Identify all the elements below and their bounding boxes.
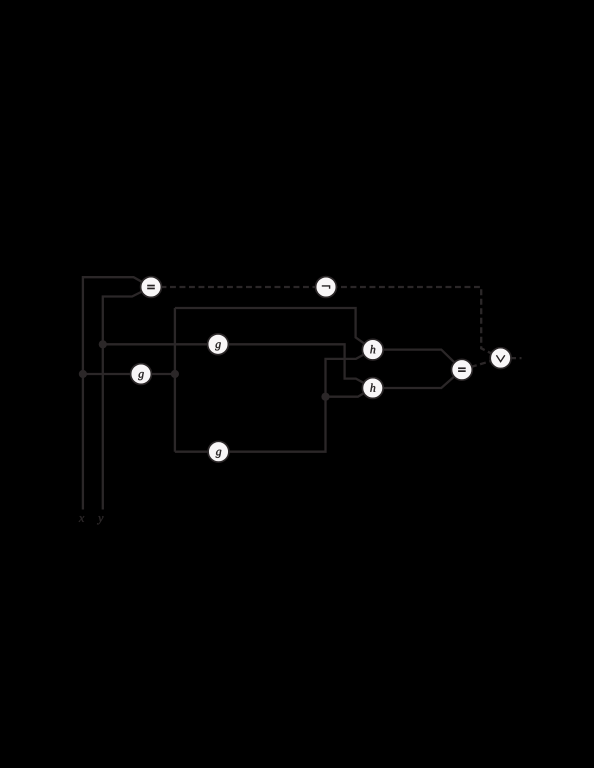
node D1 junction x/g2 <box>79 370 87 378</box>
label input y <box>97 516 103 524</box>
label input x <box>79 516 84 522</box>
wire g1 output to h2 upper input <box>218 344 373 388</box>
label = in EQ1 <box>147 285 155 290</box>
gate g2 circle <box>131 364 152 385</box>
gate EQ2 circle <box>452 359 473 380</box>
gate h1 circle <box>362 339 383 360</box>
wire dashed eq2 to or1 <box>462 358 501 370</box>
gate g2 letter <box>138 372 144 380</box>
wire top branch to h1 upper input <box>175 308 373 350</box>
gate g3 circle <box>208 441 229 462</box>
gate h2 letter <box>370 384 375 392</box>
gate NOT1 circle <box>316 277 337 298</box>
wire bottom branch through g3 to h1 lower input <box>175 350 373 452</box>
node A junction g2 output <box>171 370 179 378</box>
gate g3 letter <box>216 450 222 458</box>
node B junction g3 output <box>321 393 329 401</box>
wire node B branch to h2 lower input <box>326 388 373 397</box>
gate OR1 circle <box>490 348 511 369</box>
label or sign in OR1 <box>496 355 504 361</box>
wire y to gate g1 <box>103 343 218 345</box>
gate h1 letter <box>370 345 375 353</box>
gate EQ1 circle <box>141 277 162 298</box>
gate h2 circle <box>362 378 383 399</box>
wire input x vertical riser <box>83 277 151 509</box>
wire h2 output to eq2 <box>373 370 462 388</box>
node D2 junction y/g1 <box>99 340 107 348</box>
wire node A vertical bus <box>174 308 176 452</box>
wire dashed eq1 through not1 to or1 <box>151 287 501 358</box>
gate g1 circle <box>208 334 229 355</box>
wire input y vertical riser <box>103 287 151 510</box>
gate g1 letter <box>215 342 221 350</box>
wire dashed or1 output <box>501 357 522 359</box>
label input y <box>97 516 103 524</box>
label not sign in NOT1 <box>322 286 330 289</box>
wire g2 output to node A <box>141 373 175 375</box>
label = in EQ2 <box>458 367 466 372</box>
wire x to gate g2 <box>83 373 141 375</box>
wire h1 output to eq2 <box>373 350 462 370</box>
